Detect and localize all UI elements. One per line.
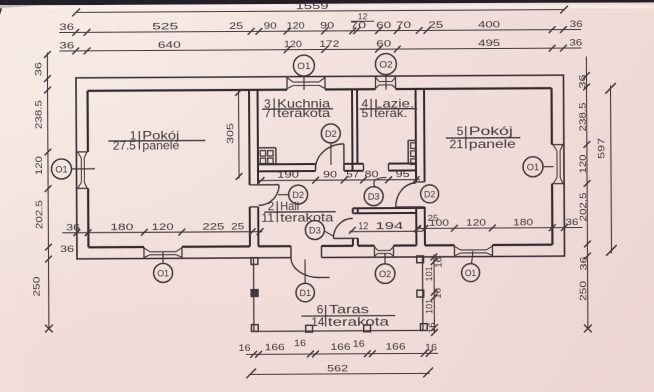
svg-text:16: 16: [433, 288, 443, 299]
vestibule north wall: [353, 208, 425, 213]
outer wall boundary: [76, 75, 565, 259]
svg-text:16: 16: [238, 342, 250, 353]
svg-text:16: 16: [427, 322, 437, 333]
svg-text:27.5: 27.5: [113, 138, 136, 152]
svg-text:90: 90: [320, 19, 334, 30]
svg-text:238.5: 238.5: [33, 100, 44, 129]
dim row second chain: [59, 37, 582, 55]
label circle O2 top: [375, 54, 396, 75]
door D3 bathroom leader: [374, 177, 387, 187]
wall hall/pokoj5: [416, 89, 425, 246]
svg-text:terakota: terakota: [280, 211, 333, 225]
svg-text:D2: D2: [325, 129, 337, 139]
svg-text:25: 25: [428, 19, 443, 30]
label room 4 Lazienka: [360, 96, 418, 120]
svg-text:16: 16: [294, 337, 306, 348]
window O1 pokoj1 south: [144, 247, 182, 259]
svg-text:90: 90: [323, 169, 337, 180]
svg-text:120: 120: [33, 156, 44, 175]
svg-text:16: 16: [353, 338, 365, 349]
wall kitchen-bathroom south: [258, 163, 416, 171]
svg-text:101: 101: [424, 299, 434, 314]
leader D1: [304, 260, 306, 284]
chimney block bathroom: [408, 140, 416, 164]
svg-text:D3: D3: [368, 191, 380, 201]
door D3 vestibule: [333, 218, 353, 238]
svg-text:250: 250: [577, 281, 588, 301]
svg-text:36: 36: [32, 62, 43, 76]
label room 2 Hall: [261, 199, 336, 225]
svg-text:14: 14: [311, 315, 324, 329]
terrace outline: [254, 257, 423, 331]
svg-text:180: 180: [110, 221, 133, 232]
svg-text:60: 60: [376, 38, 391, 49]
svg-text:36: 36: [569, 37, 582, 48]
svg-text:120: 120: [287, 20, 305, 31]
svg-text:80: 80: [364, 168, 378, 179]
svg-text:36: 36: [60, 243, 74, 254]
door D2 kitchen: [315, 144, 344, 171]
window O2 vestibule south: [374, 246, 393, 258]
svg-text:12: 12: [358, 12, 369, 21]
svg-text:495: 495: [478, 37, 500, 48]
svg-text:O2: O2: [379, 269, 391, 279]
dim 305 vertical: [224, 89, 242, 180]
label circle O1 top: [293, 55, 314, 76]
door D2 pokoj5: [396, 183, 417, 207]
label circle D2 kitchen: [321, 124, 340, 143]
dim terrace total 562: [246, 362, 433, 379]
leader O1 right: [543, 166, 553, 168]
svg-text:D1: D1: [299, 288, 311, 298]
svg-text:1559: 1559: [296, 0, 329, 11]
svg-text:21: 21: [449, 137, 463, 151]
svg-text:25: 25: [231, 220, 244, 231]
svg-text:D3: D3: [309, 225, 321, 235]
svg-text:640: 640: [158, 39, 181, 50]
dim row hall: [258, 168, 420, 184]
label circle O2 vestibule: [375, 264, 395, 284]
label circle D2 pokoj1: [289, 185, 308, 204]
label circle O1 bottom pokoj1: [154, 263, 173, 282]
inner wall faces: [88, 88, 553, 247]
svg-text:D2: D2: [424, 189, 435, 199]
svg-text:225: 225: [202, 220, 224, 231]
svg-text:70: 70: [396, 19, 411, 30]
label room 1 Pokoj: [108, 128, 205, 152]
door D2 pokoj1: [259, 185, 280, 206]
svg-text:O2: O2: [379, 59, 392, 69]
svg-text:panele: panele: [469, 137, 516, 151]
svg-text:250: 250: [31, 277, 42, 297]
label circle D2 pokoj5: [421, 185, 439, 203]
svg-text:36: 36: [576, 74, 587, 88]
label circle O1 left: [51, 159, 71, 179]
svg-text:305: 305: [224, 123, 235, 144]
svg-text:202.5: 202.5: [33, 200, 44, 229]
vestibule west wall: [353, 208, 358, 246]
svg-text:194: 194: [375, 221, 404, 232]
svg-text:terak.: terak.: [374, 106, 407, 120]
svg-text:525: 525: [152, 20, 178, 31]
svg-text:172: 172: [319, 38, 339, 49]
svg-text:O1: O1: [297, 61, 310, 71]
label circle D3 bathroom: [364, 187, 383, 206]
svg-text:5: 5: [361, 106, 368, 120]
svg-text:95: 95: [396, 168, 410, 179]
svg-text:60: 60: [376, 19, 391, 30]
leader D2 kitchen: [330, 143, 332, 165]
leader D2 pokoj1: [278, 194, 288, 196]
window O2 bathroom top: [375, 76, 395, 89]
terrace posts: [251, 256, 427, 333]
dim chain left: [29, 51, 74, 333]
door D1 entrance: [291, 246, 330, 278]
svg-text:O1: O1: [465, 268, 476, 278]
leader O1 left: [71, 168, 94, 170]
window O1 left wall: [76, 152, 88, 189]
leader O2 vestibule: [384, 254, 386, 264]
svg-text:11: 11: [261, 211, 274, 225]
svg-text:180: 180: [513, 216, 533, 227]
svg-text:190: 190: [277, 169, 299, 180]
svg-text:O1: O1: [527, 162, 540, 172]
dim chain right: [576, 56, 592, 332]
svg-text:166: 166: [385, 341, 405, 352]
svg-text:101: 101: [424, 266, 434, 281]
wall pokoj1/hall: [249, 90, 258, 247]
svg-text:202.5: 202.5: [577, 192, 588, 221]
svg-text:120: 120: [577, 154, 588, 173]
svg-text:terakota: terakota: [277, 106, 330, 120]
scanner edge band top: [0, 0, 654, 15]
leader O1 top: [303, 76, 305, 90]
svg-text:120: 120: [284, 38, 302, 49]
label room 3 Kuchnia: [262, 97, 333, 121]
svg-text:36: 36: [59, 21, 74, 32]
dim row bottom-right: [414, 212, 583, 232]
leader O1 bottom pokoj5: [471, 251, 473, 264]
window O1 pokoj5 south: [454, 245, 492, 257]
svg-text:terakota: terakota: [328, 314, 390, 328]
svg-text:O1: O1: [157, 268, 169, 278]
svg-text:5: 5: [457, 124, 464, 138]
svg-text:12: 12: [358, 221, 368, 232]
window O1 kitchen top: [287, 76, 325, 89]
svg-text:16: 16: [425, 341, 437, 352]
svg-text:7: 7: [264, 106, 271, 120]
dim total 1559: [72, 0, 568, 16]
svg-text:120: 120: [152, 221, 174, 232]
svg-text:36: 36: [66, 221, 80, 232]
svg-text:90: 90: [264, 20, 277, 31]
label room 5 Pokoj: [446, 124, 521, 152]
label circle D1 entrance: [296, 283, 315, 302]
label circle D3 vestibule: [305, 220, 324, 239]
wall kitchen/bathroom: [352, 89, 357, 171]
svg-text:36: 36: [578, 256, 589, 270]
svg-text:597: 597: [595, 138, 606, 159]
svg-text:25: 25: [229, 20, 243, 31]
label room 6 Taras: [301, 302, 395, 329]
svg-text:166: 166: [330, 341, 350, 352]
svg-text:25: 25: [428, 213, 439, 223]
leader O2 top: [385, 75, 387, 90]
label circle O1 bottom pokoj5: [462, 264, 480, 282]
chimney block kitchen: [258, 148, 276, 165]
svg-text:120: 120: [466, 217, 486, 228]
svg-text:16: 16: [434, 257, 444, 268]
svg-text:Pokój: Pokój: [469, 124, 513, 138]
window O1 right wall: [552, 145, 564, 184]
dim row bottom-left: [62, 220, 263, 236]
svg-text:562: 562: [327, 362, 348, 373]
dim total 597: [595, 83, 617, 256]
svg-text:400: 400: [478, 18, 500, 29]
dim row terrace width: [238, 336, 438, 358]
svg-text:238.5: 238.5: [577, 102, 588, 131]
dim vestibule 12 194: [349, 221, 421, 234]
label circle O1 right: [523, 157, 543, 177]
leader D3 vestibule: [324, 231, 334, 237]
dim row upper chain: [59, 11, 583, 36]
svg-text:166: 166: [265, 341, 285, 352]
svg-text:57: 57: [346, 168, 359, 179]
svg-text:O1: O1: [55, 164, 68, 174]
svg-text:36: 36: [59, 40, 74, 51]
leader O1 bottom pokoj1: [162, 251, 164, 263]
svg-text:36: 36: [570, 18, 583, 29]
dim chain terrace right: [424, 253, 444, 336]
svg-text:panele: panele: [142, 138, 179, 152]
